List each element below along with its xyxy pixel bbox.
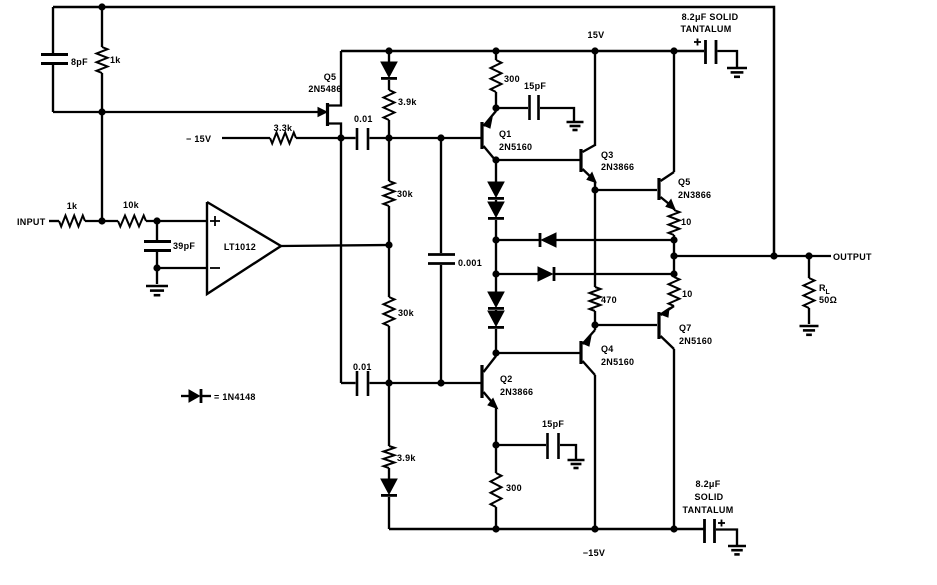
svg-text:0.01: 0.01 <box>353 362 372 372</box>
svg-text:2N3866: 2N3866 <box>500 387 533 397</box>
svg-text:− 15V: − 15V <box>186 134 211 144</box>
svg-text:3.3k: 3.3k <box>274 123 293 133</box>
svg-text:50Ω: 50Ω <box>819 295 837 305</box>
svg-text:8.2μF SOLID: 8.2μF SOLID <box>682 12 739 22</box>
svg-text:10: 10 <box>682 289 693 299</box>
svg-text:30k: 30k <box>398 308 415 318</box>
svg-text:2N3866: 2N3866 <box>601 162 634 172</box>
svg-text:8pF: 8pF <box>71 57 88 67</box>
svg-text:0.001: 0.001 <box>458 258 482 268</box>
svg-text:15V: 15V <box>588 30 605 40</box>
svg-text:Q2: Q2 <box>500 374 513 384</box>
svg-text:= 1N4148: = 1N4148 <box>214 392 256 402</box>
svg-text:3.9k: 3.9k <box>398 97 417 107</box>
svg-text:Q7: Q7 <box>679 323 692 333</box>
svg-text:Q1: Q1 <box>499 129 512 139</box>
svg-text:Q5: Q5 <box>324 72 337 82</box>
svg-text:2N5160: 2N5160 <box>679 336 712 346</box>
svg-text:1k: 1k <box>67 201 78 211</box>
svg-text:INPUT: INPUT <box>17 217 46 227</box>
svg-text:TANTALUM: TANTALUM <box>682 505 733 515</box>
svg-text:−15V: −15V <box>583 548 605 558</box>
svg-text:Q5: Q5 <box>678 177 691 187</box>
svg-text:300: 300 <box>506 483 522 493</box>
svg-text:2N5160: 2N5160 <box>499 142 532 152</box>
svg-text:39pF: 39pF <box>173 241 195 251</box>
svg-text:2N5160: 2N5160 <box>601 357 634 367</box>
svg-text:10k: 10k <box>123 200 140 210</box>
svg-text:15pF: 15pF <box>524 81 546 91</box>
svg-text:TANTALUM: TANTALUM <box>680 24 731 34</box>
svg-text:470: 470 <box>601 295 617 305</box>
svg-text:3.9k: 3.9k <box>397 453 416 463</box>
svg-text:10: 10 <box>681 217 692 227</box>
svg-text:15pF: 15pF <box>542 419 564 429</box>
svg-text:Q4: Q4 <box>601 344 614 354</box>
svg-text:1k: 1k <box>110 55 121 65</box>
svg-text:0.01: 0.01 <box>354 114 373 124</box>
svg-text:8.2μF: 8.2μF <box>695 479 720 489</box>
svg-text:SOLID: SOLID <box>694 492 723 502</box>
svg-text:Q3: Q3 <box>601 150 614 160</box>
svg-text:300: 300 <box>504 74 520 84</box>
svg-text:LT1012: LT1012 <box>224 242 256 252</box>
svg-text:2N5486: 2N5486 <box>308 84 341 94</box>
svg-text:OUTPUT: OUTPUT <box>833 252 872 262</box>
svg-text:2N3866: 2N3866 <box>678 190 711 200</box>
svg-text:30k: 30k <box>397 189 414 199</box>
